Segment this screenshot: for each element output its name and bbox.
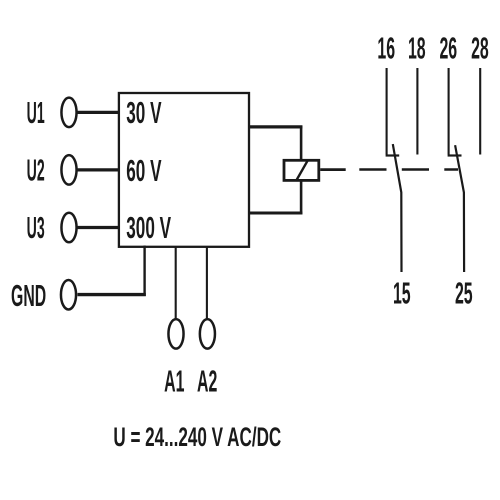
svg-text:A1: A1 (164, 365, 185, 399)
wire GND vertical (143, 246, 145, 297)
contact blade 25-26 (455, 145, 464, 272)
svg-text:U1: U1 (27, 96, 45, 131)
svg-text:25: 25 (455, 277, 473, 311)
wire U3 to box (78, 226, 121, 229)
terminal line 26 (448, 68, 450, 155)
terminal circle A1 (168, 319, 183, 349)
svg-text:A2: A2 (197, 365, 217, 399)
svg-text:60 V: 60 V (126, 154, 161, 189)
svg-text:18: 18 (408, 32, 426, 66)
terminal circle U3 (61, 213, 76, 243)
contact foot 26 (448, 154, 462, 156)
terminal line 16 (386, 68, 388, 155)
relay coil K1 (284, 160, 319, 180)
svg-text:300 V: 300 V (126, 211, 171, 246)
wire coil to link (320, 168, 346, 171)
contact foot 16 (386, 154, 400, 156)
svg-text:26: 26 (439, 32, 457, 66)
svg-text:U = 24...240 V AC/DC: U = 24...240 V AC/DC (113, 422, 281, 452)
svg-text:GND: GND (11, 279, 46, 313)
wire box to coil top (249, 125, 302, 128)
svg-text:28: 28 (471, 32, 489, 66)
wire GND to box bottom (78, 293, 146, 296)
svg-text:30 V: 30 V (126, 96, 161, 131)
svg-text:U3: U3 (27, 211, 45, 246)
terminal circle U2 (61, 155, 76, 185)
terminal circle U1 (61, 98, 76, 128)
terminal circle A2 (200, 319, 215, 349)
coil diagonal (296, 160, 308, 181)
wire U2 to box (78, 168, 121, 171)
wire box to coil bottom (249, 212, 302, 215)
mechanical link dash 2 (402, 168, 429, 171)
wire A2 (206, 247, 208, 319)
wire coil bottom vertical (300, 181, 303, 215)
mechanical link dash 3 (444, 168, 458, 171)
contact blade 15-16 (393, 144, 402, 272)
svg-text:16: 16 (377, 32, 395, 66)
terminal circle GND (61, 280, 76, 310)
svg-text:15: 15 (393, 277, 411, 311)
wire A1 (175, 247, 177, 319)
mechanical link dash 1 (359, 168, 386, 171)
wire U1 to box (78, 111, 121, 114)
wire coil top vertical (300, 126, 303, 161)
terminal line 18 (416, 68, 418, 155)
terminal line 28 (479, 68, 481, 155)
svg-text:U2: U2 (27, 153, 45, 188)
device box U1 (119, 93, 249, 247)
